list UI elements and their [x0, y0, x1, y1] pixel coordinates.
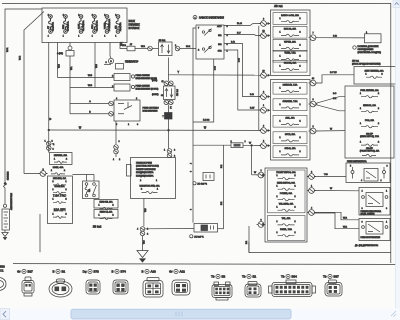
svg-text:FRONT DEFOG, 30A: FRONT DEFOG, 30A: [276, 171, 296, 174]
HEAD RH row: [94, 200, 118, 209]
vertical scrollbar sliver: [396, 0, 400, 309]
svg-text:HEAD RH, 10A: HEAD RH, 10A: [100, 201, 114, 204]
svg-text:B: B: [141, 270, 143, 274]
svg-text:2: 2: [174, 150, 175, 152]
svg-text:J/B №1: J/B №1: [159, 39, 167, 42]
svg-text:CIG-UP: CIG-UP: [366, 148, 374, 150]
AM2 relay box: [73, 174, 95, 176]
svg-text:W-B: W-B: [88, 75, 93, 77]
circle row 130 W bus: [259, 128, 268, 134]
B-R vertical bus right of J/C: [223, 145, 225, 228]
fuse STD-B, 15A: [273, 146, 307, 158]
glow relay 2 box: [114, 84, 130, 91]
wire to generator: [110, 43, 111, 59]
page right border: [390, 3, 392, 263]
svg-text:2: 2: [92, 15, 93, 17]
svg-text:ГЛАВНОЕ РЕЛЕ: ГЛАВНОЕ РЕЛЕ: [136, 161, 152, 164]
fusible link ALT-S,7.5A: [93, 15, 97, 34]
svg-text:W-B: W-B: [58, 63, 60, 68]
svg-text:1: 1: [92, 36, 93, 38]
svg-text:HEAD LH, 10A: HEAD LH, 10A: [100, 211, 113, 214]
svg-text:FUEL HEATER, 20A: FUEL HEATER, 20A: [360, 89, 379, 92]
svg-text:1: 1: [48, 36, 49, 38]
stray vertical: [39, 214, 41, 252]
glow relay wire 2: [70, 87, 114, 89]
svg-text:B: B: [52, 270, 54, 274]
connector B73 body: [86, 280, 100, 294]
J/B No.3 box: [164, 86, 176, 100]
svg-text:2: 2: [78, 15, 79, 17]
svg-text:B-R: B-R: [231, 41, 235, 43]
connector B27 body: [25, 277, 31, 281]
svg-text:RADIO & CIG, 15A: RADIO & CIG, 15A: [281, 14, 299, 17]
connector E3 body: [214, 282, 219, 286]
relay 3 defog: [359, 219, 390, 241]
svg-text:E3: E3: [222, 275, 226, 279]
svg-text:ALT,100A: ALT,100A: [52, 22, 55, 31]
fusible link GLOW,80A: [79, 15, 83, 34]
W wire to FOG: [309, 128, 318, 134]
fuse RADIO &amp; CIG, 15A: [273, 13, 307, 25]
svg-text:КОНДИЦИОНЕРА: КОНДИЦИОНЕРА: [136, 175, 154, 178]
fuse STARTER, 7.5A: [273, 99, 307, 111]
svg-text:1: 1: [104, 36, 105, 38]
connector 7 block: [165, 113, 173, 120]
fuse STOP, 15A: [273, 132, 307, 144]
Y-G wire: [307, 174, 316, 180]
fusible link MAIN,2.0L: [64, 15, 68, 34]
fuse WIPER, 20A: [273, 39, 307, 51]
svg-text:TURN, 7.5A: TURN, 7.5A: [284, 52, 296, 55]
B-R drop below panel box: [248, 242, 250, 253]
svg-text:W-B: W-B: [96, 63, 98, 68]
svg-text:A23: A23: [151, 270, 157, 274]
svg-text:1: 1: [115, 36, 116, 38]
svg-text:B-Y 15: B-Y 15: [330, 72, 337, 74]
fuse AM1, 40A: [273, 115, 307, 127]
circle row 175 group3: [257, 172, 266, 178]
svg-text:2: 2: [104, 15, 105, 17]
svg-text:(REAR DEFOG), 7.5A: (REAR DEFOG), 7.5A: [360, 135, 379, 138]
svg-text:ALT: ALT: [47, 26, 50, 29]
svg-text:W-R: W-R: [343, 226, 348, 228]
feed pair above main relay: [167, 149, 172, 154]
svg-text:ЗАМОК ЗАЖИГАНИЯ: ЗАМОК ЗАЖИГАНИЯ: [199, 16, 224, 19]
W-R wires to relay3: [307, 210, 316, 216]
svg-text:ALT-S,7.5A: ALT-S,7.5A: [96, 20, 99, 31]
circle row 224 group3: [257, 222, 266, 228]
svg-text:Tb: Tb: [242, 275, 246, 279]
svg-text:J/C №5 *1: J/C №5 *1: [194, 235, 204, 238]
svg-text:B84: B84: [292, 275, 298, 279]
fuse IGNITION, 7.5A: [273, 82, 307, 94]
svg-text:РЕЛЕ СВЕЧЕЙ: РЕЛЕ СВЕЧЕЙ: [136, 74, 151, 77]
svg-text:A22: A22: [180, 270, 186, 274]
svg-text:(БЛОК ПРЕДОХРАНИТЕЛЕЙ): (БЛОК ПРЕДОХРАНИТЕЛЕЙ): [352, 62, 381, 65]
svg-text:Tb: Tb: [211, 275, 215, 279]
svg-text:B73: B73: [94, 270, 100, 274]
svg-text:РЕЛЕ ПРОТИВОТУМАН.: РЕЛЕ ПРОТИВОТУМАН.: [361, 210, 382, 213]
svg-text:B-Y: B-Y: [237, 32, 241, 34]
J/B No.3 vertical: [168, 58, 170, 82]
connector B1 body: [57, 279, 65, 283]
svg-text:GLOW: GLOW: [78, 23, 80, 29]
main EFI relay box: [131, 158, 176, 199]
svg-text:(DOH): (DOH): [152, 80, 158, 82]
svg-text:Dg: Dg: [83, 270, 87, 274]
svg-text:Gr: Gr: [17, 270, 20, 274]
svg-text:1: 1: [381, 180, 382, 182]
svg-text:POWER,30A: POWER,30A: [108, 18, 111, 31]
svg-text:W-R: W-R: [122, 45, 127, 47]
connector A22 body: [172, 280, 190, 295]
svg-text:B27: B27: [28, 270, 34, 274]
svg-text:РЕЛЕ ОБОГРЕВАТЕЛЯ: РЕЛЕ ОБОГРЕВАТЕЛЯ: [361, 236, 381, 239]
additional fuse box right: [345, 86, 394, 158]
svg-text:1: 1: [63, 36, 64, 38]
svg-text:НАКАЛИВАНИЯ (DOHC): НАКАЛИВАНИЯ (DOHC): [136, 87, 159, 90]
fusible link box (БЛОК ПЛАВКИХ ВСТАВОК): [42, 8, 127, 43]
svg-text:30: 30: [161, 95, 163, 97]
S-R wire to connector: [309, 35, 318, 41]
svg-text:2: 2: [174, 156, 175, 158]
svg-text:ECU-IG, 15A: ECU-IG, 15A: [284, 28, 297, 31]
svg-text:B-W: B-W: [239, 58, 241, 62]
horizontal scrollbar: [0, 309, 400, 320]
svg-text:W-R: W-R: [141, 46, 146, 48]
svg-text:PANEL, 7.5A: PANEL, 7.5A: [280, 228, 292, 231]
svg-text:BL-R: BL-R: [237, 23, 242, 25]
battery: [2, 209, 10, 230]
svg-text:MAIN,2.0L: MAIN,2.0L: [67, 20, 70, 31]
fusible link on battery wire: [3, 181, 6, 189]
B-Y wire: [224, 35, 261, 36]
svg-text:1: 1: [164, 150, 165, 152]
svg-text:ДВ. (НА) ДАТЧИК МАССЫ: ДВ. (НА) ДАТЧИК МАССЫ: [355, 244, 378, 247]
svg-text:J/B №2: J/B №2: [93, 225, 102, 229]
svg-text:(СИСТЕМЫ ВПРЫСКА): (СИСТЕМЫ ВПРЫСКА): [136, 165, 159, 168]
svg-text:РЕЛЕ ВЕНТИЛЯТОРА: РЕЛЕ ВЕНТИЛЯТОРА: [347, 160, 367, 163]
generator (ГЕНЕРАТОР): [108, 58, 113, 63]
ignition switch label: [193, 15, 197, 19]
svg-text:GLOW,80A: GLOW,80A: [82, 20, 85, 31]
svg-text:1: 1: [78, 36, 79, 38]
ground arrow: [142, 236, 144, 251]
svg-text:Tb: Tb: [323, 275, 327, 279]
svg-text:MAIN, 40A: MAIN, 40A: [53, 166, 64, 169]
svg-text:R-B 18: R-B 18: [203, 120, 210, 122]
main relay output wire down: [143, 199, 145, 227]
svg-text:(DOHC): (DOHC): [152, 94, 159, 96]
svg-text:5: 5: [350, 166, 351, 168]
svg-text:РЕЛЕ СИСТЕМЫ: РЕЛЕ СИСТЕМЫ: [143, 108, 159, 110]
svg-text:(FRONT DEFOG), 10A: (FRONT DEFOG), 10A: [360, 150, 380, 153]
fuse GAUGE, 10A: [273, 60, 307, 72]
svg-text:2: 2: [63, 15, 64, 17]
J/C No.5 *1 box: [194, 224, 218, 233]
svg-text:STOP, 15A: STOP, 15A: [285, 133, 296, 136]
connector E1 body: [248, 282, 257, 286]
wire W-B: [57, 43, 59, 78]
svg-text:4: 4: [362, 191, 363, 193]
svg-text:RADIATOR FAN, 30A: RADIATOR FAN, 30A: [139, 185, 160, 188]
svg-text:C1: C1: [0, 269, 4, 273]
ST1 wire down: [193, 59, 214, 122]
connector B74 body: [113, 280, 128, 294]
B-R wire: [224, 44, 261, 97]
svg-text:CIG-UP: CIG-UP: [366, 133, 374, 135]
svg-text:ГЕНЕРАТОР: ГЕНЕРАТОР: [125, 61, 139, 64]
Y wire to right: [169, 74, 261, 76]
svg-text:GAUGE, 10A: GAUGE, 10A: [284, 62, 297, 65]
vertical stub bus: [258, 26, 260, 130]
ignition feed chain from link box: [127, 46, 135, 51]
svg-text:B-O: B-O: [333, 93, 337, 95]
svg-text:ВСТАВОК: ВСТАВОК: [129, 27, 141, 30]
svg-text:B1: B1: [62, 270, 66, 274]
glow system relay box: [70, 103, 109, 105]
svg-text:B87: B87: [334, 275, 340, 279]
wire to battery from box top-left: [5, 9, 42, 181]
svg-text:(ЗАДН. СТЕКЛА): (ЗАДН. СТЕКЛА): [361, 212, 375, 215]
svg-text:W-B: W-B: [88, 85, 93, 87]
wire with AB fusible link: [69, 43, 71, 47]
page top border: [2, 2, 391, 4]
svg-text:6: 6: [362, 222, 363, 224]
svg-text:TAIL-MIRR, 30A: TAIL-MIRR, 30A: [279, 202, 294, 205]
glow relay wire 1: [58, 77, 115, 79]
separator line above connector strip: [13, 263, 397, 266]
left feed circle: [24, 173, 40, 175]
svg-text:STD-B, 15A: STD-B, 15A: [284, 147, 296, 150]
svg-text:1: 1: [386, 222, 387, 224]
circle row 75: [259, 72, 268, 78]
svg-text:B-W: B-W: [215, 66, 217, 70]
svg-text:HAZ-HRN, 10A: HAZ-HRN, 10A: [53, 177, 67, 180]
svg-text:MIRROR, 20A: MIRROR, 20A: [363, 104, 376, 107]
connector B84 body: [286, 280, 296, 284]
svg-text:HORN, 10A: HORN, 10A: [55, 185, 66, 188]
svg-text:W-B: W-B: [20, 55, 22, 60]
svg-text:Tb: Tb: [281, 275, 285, 279]
svg-text:НАКАЛИВАНИЯ: НАКАЛИВАНИЯ: [143, 109, 159, 112]
svg-text:REAR DEFOG, 30A: REAR DEFOG, 30A: [277, 181, 296, 184]
J/C No.5 *2 small box: [203, 173, 214, 181]
BL-R wire: [224, 24, 261, 26]
svg-text:AM1, 40A: AM1, 40A: [285, 117, 295, 120]
J/B No.2 outer box bottom: [249, 252, 391, 254]
svg-text:B74: B74: [121, 270, 127, 274]
W wire with inline connector: [193, 144, 231, 146]
connector B87 body: [329, 280, 337, 284]
svg-text:FOG, 15A: FOG, 15A: [365, 119, 375, 122]
fusible link ALT,100A: [49, 15, 53, 34]
J/B No.1 inline box: [159, 42, 173, 56]
svg-text:КОНДИЦИОНЕРА: КОНДИЦИОНЕРА: [136, 171, 154, 174]
wire below relay box: [115, 121, 117, 144]
fuse TURN, 7.5A: [273, 50, 307, 62]
connector A23 body: [147, 278, 159, 282]
svg-text:S-R: S-R: [333, 35, 337, 37]
J/B No.1 fuse box group3: [265, 168, 307, 242]
svg-text:J/B №3: J/B №3: [176, 88, 179, 96]
svg-text:POWER, 30A: POWER, 30A: [280, 192, 293, 195]
svg-text:РАСШИФР. ДОПОЛНИТ.: РАСШИФР. ДОПОЛНИТ.: [358, 45, 380, 48]
svg-text:ACC: ACC: [217, 25, 222, 28]
svg-text:AM1: AM1: [114, 25, 117, 29]
svg-text:4: 4: [361, 180, 362, 182]
right grip: [391, 311, 396, 317]
svg-text:B: B: [111, 270, 113, 274]
svg-text:ОБОРУДОВАНИЯ: ОБОРУДОВАНИЯ: [358, 48, 374, 51]
svg-text:AM1,40A: AM1,40A: [119, 22, 122, 31]
svg-text:WIPER, 20A: WIPER, 20A: [284, 41, 296, 44]
svg-text:2: 2: [53, 149, 54, 151]
fuel heater wires: [309, 101, 318, 107]
heater connector pair: [46, 141, 51, 146]
wire W down from link1: [48, 43, 50, 153]
svg-text:B-R: B-R: [250, 94, 254, 96]
svg-text:Gr: Gr: [169, 270, 172, 274]
svg-text:SEAT HEATER, 20A: SEAT HEATER, 20A: [365, 69, 385, 72]
seat heater box: [354, 67, 396, 85]
svg-text:W-R: W-R: [343, 218, 348, 220]
svg-text:ЭЛЕКТРОПИТАНИЕ: ЭЛЕКТРОПИТАНИЕ: [136, 168, 156, 171]
DOH pair: [164, 81, 169, 86]
svg-text:1: 1: [386, 191, 387, 193]
svg-text:12: 12: [162, 81, 164, 83]
B-Y riser: [309, 80, 318, 86]
svg-text:15A EFI: 15A EFI: [53, 208, 65, 212]
svg-text:2: 2: [115, 15, 116, 17]
svg-text:6: 6: [362, 208, 363, 210]
svg-text:9: 9: [191, 171, 193, 172]
svg-text:*1: *1: [53, 144, 55, 146]
svg-text:(ОЧИСТИТЕЛЬ ВОЗДУХА): (ОЧИСТИТЕЛЬ ВОЗДУХА): [358, 51, 382, 54]
svg-text:J/B №1: J/B №1: [274, 4, 283, 8]
svg-text:TAIL, 15A: TAIL, 15A: [282, 217, 291, 220]
J/B No.1 fuse box group2: [271, 80, 311, 161]
svg-text:3: 3: [191, 209, 193, 210]
svg-text:B33: B33: [0, 265, 5, 269]
svg-text:HEATER, 15A: HEATER, 15A: [54, 154, 68, 157]
svg-text:E1: E1: [253, 275, 257, 279]
J/B No.2 fuse box: [48, 176, 73, 224]
svg-text:4: 4: [191, 163, 193, 164]
note about optional equipment: [353, 46, 356, 49]
svg-text:2: 2: [48, 15, 49, 17]
svg-text:IGNITION, 7.5A: IGNITION, 7.5A: [283, 84, 298, 87]
wire right to J/C No.5 *1: [145, 228, 194, 230]
svg-text:Y-G: Y-G: [324, 174, 328, 176]
W bus wire: [49, 129, 261, 131]
bottom connector pair: [140, 227, 145, 232]
svg-text:РЕЛЕ СВЕЧЕЙ: РЕЛЕ СВЕЧЕЙ: [136, 85, 151, 88]
fusible link POWER,30A: [105, 15, 109, 34]
AM2 pin7 stub to bus: [193, 28, 196, 223]
svg-text:STARTER, 7.5A: STARTER, 7.5A: [283, 100, 299, 103]
circle row 145: [259, 143, 268, 149]
svg-text:4 (AB): 4 (AB): [57, 52, 63, 55]
B-W wire: [224, 50, 261, 110]
relay 2 fog: [359, 188, 390, 216]
svg-text:J/B №1: J/B №1: [352, 59, 360, 62]
svg-text:7.5A TRC: 7.5A TRC: [53, 193, 67, 197]
svg-text:АККУМУЛЯТОРНАЯ: АККУМУЛЯТОРНАЯ: [10, 192, 13, 210]
svg-text:W-R: W-R: [7, 47, 9, 52]
HEAD LH row: [94, 210, 118, 219]
svg-text:POWER: POWER: [104, 22, 106, 29]
svg-text:ПЛАВКАЯ: ПЛАВКАЯ: [7, 171, 10, 180]
scrollbar thumb: [71, 309, 291, 319]
fuse ECU-IG, 15A: [273, 26, 307, 38]
diagonal wire down-left: [24, 12, 44, 174]
HEATER fuse row: [50, 153, 73, 165]
svg-text:IG-R: IG-R: [186, 46, 191, 48]
svg-text:3: 3: [387, 166, 388, 168]
W wire to relay2: [307, 188, 316, 194]
fusible link AM1,40A: [116, 15, 120, 34]
wire to ignition chain: [120, 43, 127, 49]
svg-text:3: 3: [386, 208, 387, 210]
glow relay 1 box: [114, 74, 130, 81]
ignition switch box: [196, 25, 224, 59]
battery ground: [4, 230, 6, 232]
svg-text:J/C №5 *2: J/C №5 *2: [197, 182, 207, 185]
